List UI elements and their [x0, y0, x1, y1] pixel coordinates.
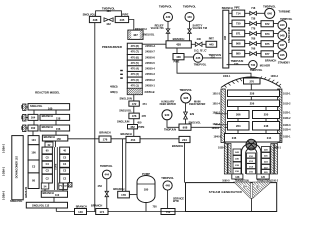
svg-text:264: 264 [236, 124, 241, 128]
volume 946 [278, 51, 287, 60]
valve 442 spray [104, 18, 113, 22]
volume 448 SI [163, 181, 172, 190]
svg-text:1040-8: 1040-8 [214, 136, 222, 139]
svg-text:868: 868 [236, 42, 241, 46]
SG shell bar right lower [271, 144, 274, 175]
svg-text:120: 120 [261, 176, 266, 179]
svg-text:476: 476 [132, 114, 137, 118]
volume 256 separator [228, 100, 280, 107]
svg-text:930: 930 [165, 113, 170, 117]
volume 266 downcomer upper [228, 111, 250, 119]
volume 928 main feedwater [181, 93, 191, 103]
volume 112 lower head [26, 202, 67, 208]
valve 788 [250, 42, 257, 46]
svg-text:PIPE: PIPE [122, 12, 128, 16]
svg-text:270: 270 [249, 79, 254, 83]
volume 947 [278, 41, 287, 50]
svg-text:448: 448 [165, 184, 170, 188]
wire 435 to steam header [203, 57, 222, 59]
SG dome arc [221, 77, 281, 88]
SG shell bar left lower [224, 144, 227, 175]
wires core to 110 [44, 189, 46, 191]
svg-text:TMDPVOL: TMDPVOL [183, 4, 196, 8]
svg-text:1030-2: 1030-2 [218, 147, 226, 150]
volume 164 [28, 114, 38, 120]
volume 162 [28, 125, 38, 131]
svg-text:454: 454 [131, 138, 136, 142]
U-tube mid node boxes [247, 153, 256, 174]
svg-text:SNGLVOL: SNGLVOL [83, 12, 96, 16]
svg-text:480(1): 480(1) [110, 90, 118, 94]
svg-text:180: 180 [144, 188, 149, 192]
core bypass channel lines [54, 147, 56, 190]
svg-text:SNGLVOL: SNGLVOL [119, 108, 132, 112]
svg-text:1010-3: 1010-3 [213, 93, 221, 96]
svg-text:24550-B: 24550-B [145, 90, 155, 94]
svg-text:929: 929 [190, 112, 195, 116]
volume 258 separator upper [228, 90, 280, 97]
wire 110 to 112 [53, 197, 55, 202]
volume 430 relief sink [164, 13, 173, 22]
wires row3 to row4 [32, 131, 34, 136]
svg-text:160: 160 [48, 106, 53, 110]
svg-text:TMDPVOL: TMDPVOL [194, 63, 207, 67]
svg-text:470 (5): 470 (5) [131, 61, 139, 65]
wire 112 to cold leg line [55, 208, 57, 212]
volume 440 safety sink [185, 13, 194, 22]
loop boundary rectangle [186, 183, 277, 212]
core top junction box [45, 142, 53, 147]
wire cold leg bottom line [56, 211, 185, 213]
svg-text:WTR: WTR [173, 200, 179, 203]
svg-text:872: 872 [265, 22, 270, 26]
row 3: volume 871 [232, 30, 245, 37]
svg-text:ANNULUS: ANNULUS [25, 186, 28, 198]
svg-text:BRANCH: BRANCH [265, 59, 276, 63]
svg-text:BRANCH: BRANCH [44, 135, 55, 139]
svg-text:24550-2: 24550-2 [145, 78, 155, 82]
riser node boxes right of U [262, 147, 271, 175]
svg-text:470 (2): 470 (2) [131, 78, 139, 82]
svg-text:24550-3: 24550-3 [145, 72, 155, 76]
svg-text:250: 250 [264, 113, 269, 117]
svg-text:BRANCH: BRANCH [91, 204, 102, 208]
volume 246 boiler [225, 134, 281, 143]
wire 435 to branch 437 [129, 20, 134, 31]
wires row2 to row3 [33, 120, 35, 125]
svg-text:1100-2: 1100-2 [271, 180, 279, 183]
valve 778 [250, 32, 257, 36]
svg-text:TMDPVOL: TMDPVOL [159, 4, 172, 8]
svg-text:TMDPVOL: TMDPVOL [179, 88, 192, 92]
svg-text:SNGLJUN: SNGLJUN [117, 119, 130, 123]
leader wires left labels [215, 113, 228, 115]
svg-text:124: 124 [243, 185, 248, 188]
branch 110 lower plenum [41, 191, 67, 197]
svg-text:CORE: CORE [56, 163, 58, 170]
volume 234 SG inlet [179, 136, 190, 142]
wire 444 to valve [106, 179, 108, 191]
svg-text:BRANCH: BRANCH [99, 131, 110, 135]
svg-text:908: 908 [183, 126, 188, 130]
row 5: volume 880 [232, 50, 245, 57]
volume 178 pump suction [118, 191, 130, 198]
valve charging [105, 191, 109, 196]
svg-text:1090-5: 1090-5 [222, 180, 230, 183]
svg-text:875: 875 [265, 42, 270, 46]
SG shell bar right upper [278, 89, 282, 143]
wire valve to 174 [106, 197, 108, 209]
svg-text:730: 730 [236, 22, 241, 26]
volume 752 cold leg [161, 209, 175, 215]
svg-text:444: 444 [105, 173, 110, 177]
volume 445 PRT [206, 41, 217, 47]
svg-text:106: 106 [31, 151, 36, 155]
svg-text:TMDPVOL: TMDPVOL [250, 68, 263, 72]
svg-text:BRANCH: BRANCH [43, 191, 54, 195]
svg-text:174: 174 [99, 210, 104, 214]
tube sheet box right [257, 174, 269, 179]
wires row1 to row2 [33, 110, 35, 114]
U-tube inner [246, 148, 257, 174]
svg-text:452: 452 [130, 125, 135, 129]
core channel B volumes [60, 147, 70, 183]
svg-text:778: 778 [251, 28, 256, 31]
wire stack chain [133, 95, 135, 137]
valve 718 [250, 11, 257, 15]
wire 908 to SG downcomer [191, 126, 228, 128]
svg-text:470 (1): 470 (1) [131, 84, 139, 88]
valve 446 [195, 42, 202, 46]
junction hatched row2 [23, 114, 26, 121]
svg-text:234: 234 [182, 138, 187, 142]
svg-text:437: 437 [133, 33, 138, 37]
wire funnel top [233, 181, 270, 183]
svg-text:478: 478 [142, 114, 147, 118]
wire 430 to valve [167, 22, 169, 29]
svg-text:176: 176 [103, 138, 108, 142]
SG dome hatch ticks [224, 77, 281, 88]
svg-text:SNGLVOL: SNGLVOL [30, 104, 43, 108]
volume 176 hot leg [99, 136, 111, 142]
valve 748 safety [188, 29, 192, 33]
svg-text:1040-6: 1040-6 [212, 127, 220, 130]
funnel labels [242, 185, 248, 188]
wires to third row [237, 107, 239, 111]
wire 436 to 435 circle [184, 56, 193, 58]
volume 873 [261, 31, 273, 37]
svg-text:110: 110 [55, 193, 60, 197]
svg-text:798: 798 [251, 48, 256, 51]
wire from volume 438 down to cold leg [94, 23, 96, 212]
svg-text:DOWNCOMER 102: DOWNCOMER 102 [16, 156, 19, 179]
svg-text:VALVES 748: VALVES 748 [193, 27, 208, 30]
svg-text:140: 140 [78, 210, 83, 214]
wire header to 736 [227, 64, 249, 66]
svg-text:24550-6: 24550-6 [145, 55, 155, 59]
svg-text:940: 940 [280, 23, 285, 27]
svg-text:24550-7: 24550-7 [145, 50, 155, 54]
wires to fourth row [237, 119, 239, 122]
wire funnel outlet [251, 198, 253, 212]
wire 270 to separator row [250, 84, 252, 90]
volume 444 charging [102, 170, 111, 179]
svg-text:128: 128 [235, 176, 240, 179]
svg-text:258: 258 [250, 92, 255, 96]
wire 448 to 750 [167, 190, 169, 208]
svg-text:TMDPVOL: TMDPVOL [100, 164, 113, 168]
wire [250, 97, 252, 101]
svg-text:948: 948 [280, 33, 285, 37]
svg-text:STEAM GENERATOR: STEAM GENERATOR [209, 190, 243, 194]
svg-text:FEED WATER: FEED WATER [160, 103, 176, 106]
wire 234 down to SG inlet plenum [184, 143, 186, 183]
svg-text:162: 162 [31, 126, 36, 130]
svg-text:SNGLJUN: SNGLJUN [120, 96, 133, 100]
svg-text:REACTOR MODEL: REACTOR MODEL [35, 91, 60, 95]
separator swirl symbol [246, 139, 257, 150]
svg-text:873: 873 [265, 32, 270, 36]
svg-text:733: 733 [234, 62, 239, 66]
wires header to row volumes [229, 13, 232, 53]
svg-text:1080-1: 1080-1 [273, 147, 281, 150]
volume 948 [278, 31, 287, 40]
valve 929 feed [184, 112, 188, 119]
svg-text:1010-2: 1010-2 [283, 103, 291, 106]
U-tube outer [242, 143, 261, 174]
svg-text:BRANCH: BRANCH [121, 132, 132, 136]
svg-text:1010-1: 1010-1 [283, 93, 291, 96]
volume 930 aux feedwater [162, 110, 172, 120]
bypass column volumes [28, 136, 39, 189]
svg-text:420: 420 [106, 9, 111, 13]
row 2: volume 730 [232, 20, 245, 27]
svg-text:BRANCH: BRANCH [172, 144, 183, 148]
svg-text:FEED WATER: FEED WATER [189, 103, 205, 106]
wires to boiler row [237, 130, 239, 134]
core channel A volumes [42, 147, 52, 183]
wire 178 to pump [129, 194, 137, 196]
wire valve to 908 [185, 119, 187, 124]
svg-text:445: 445 [209, 43, 214, 47]
svg-text:718: 718 [251, 7, 256, 10]
SG outlet funnel left [235, 182, 251, 198]
svg-text:446: 446 [197, 37, 202, 41]
SG shell bar left upper [221, 89, 225, 143]
svg-text:470 (8): 470 (8) [131, 44, 139, 48]
pipe 436 [173, 54, 184, 60]
svg-text:1030-1: 1030-1 [283, 136, 291, 139]
volume 140 lower plenum inlet [75, 209, 87, 215]
wire to valve 446 [191, 43, 195, 45]
svg-text:877: 877 [265, 52, 270, 56]
volume 940 [278, 21, 287, 30]
pump 180 RCP [137, 176, 155, 203]
wire 930 to 908 [167, 120, 179, 128]
branch 438 relief header [166, 41, 191, 48]
core lower junction A [41, 183, 49, 189]
svg-text:480(3): 480(3) [110, 85, 118, 89]
svg-text:435: 435 [196, 56, 201, 60]
wire valve to PRT [202, 43, 206, 45]
svg-text:BRANCH: BRANCH [76, 205, 87, 209]
svg-text:640: 640 [267, 12, 272, 16]
pressurizer stack volumes 470 [127, 43, 142, 94]
wire hot leg [68, 138, 179, 140]
wire 440 to valve [189, 22, 191, 29]
wire 928 to valve [185, 103, 187, 112]
svg-text:STANDBY: STANDBY [278, 60, 291, 64]
volume 875 [261, 41, 273, 47]
svg-text:880: 880 [236, 52, 241, 56]
svg-text:1-DBA-1: 1-DBA-1 [3, 166, 6, 176]
svg-text:104: 104 [31, 138, 36, 142]
svg-text:750: 750 [153, 205, 158, 208]
steam header manifold 408 [223, 10, 229, 68]
svg-text:738: 738 [251, 18, 256, 21]
volume 640 turbine [265, 8, 275, 18]
svg-text:TMDPVOL: TMDPVOL [161, 176, 174, 180]
volume 476 surge line [129, 113, 139, 119]
svg-text:470 (6): 470 (6) [131, 55, 139, 59]
volume 250 riser upper [253, 111, 280, 119]
svg-text:1000-1: 1000-1 [223, 75, 231, 78]
svg-text:266: 266 [236, 113, 241, 117]
valve 738 [250, 22, 257, 26]
svg-text:178: 178 [121, 193, 126, 197]
svg-text:PIPE: PIPE [138, 125, 144, 129]
junction hatched row3 [23, 125, 26, 132]
svg-text:164: 164 [31, 116, 36, 120]
svg-text:C3: C3 [32, 165, 36, 169]
valve 746 relief [166, 29, 170, 33]
svg-text:1020-1: 1020-1 [283, 112, 291, 115]
svg-text:256: 256 [250, 102, 255, 106]
wire pump to cold leg [145, 202, 147, 212]
svg-text:1-DBA-3: 1-DBA-3 [3, 190, 6, 200]
svg-text:PRT: PRT [209, 37, 215, 41]
svg-text:BRANCH: BRANCH [42, 114, 53, 118]
svg-text:947: 947 [280, 43, 285, 47]
svg-text:450: 450 [137, 120, 142, 124]
svg-text:156: 156 [56, 127, 61, 131]
core lower junctions B [59, 183, 63, 189]
svg-text:474: 474 [142, 102, 147, 106]
svg-text:714: 714 [236, 11, 241, 15]
volume 270 steam dome [244, 78, 261, 84]
tube sheet box left [232, 174, 243, 179]
svg-text:248: 248 [264, 124, 269, 128]
volume 248 riser [253, 122, 280, 131]
wire branch150 to core [54, 141, 56, 147]
svg-text:S.G. 'B','C': S.G. 'B','C' [194, 48, 207, 52]
svg-text:871: 871 [236, 32, 241, 36]
downcomer tall volume [12, 136, 23, 200]
junction tick marks left column [21, 105, 22, 130]
svg-text:1020-4: 1020-4 [283, 129, 291, 132]
junction hatched core outlet [68, 183, 72, 188]
SG outlet funnel right [253, 182, 271, 198]
svg-text:BRANCH: BRANCH [113, 187, 124, 191]
svg-text:158: 158 [56, 116, 61, 120]
svg-text:788: 788 [251, 38, 256, 41]
volume 736 MS header [249, 60, 257, 68]
junction 472 [129, 101, 139, 106]
svg-text:1010-4: 1010-4 [213, 103, 221, 106]
wire branch 438 to pipe 436 [176, 48, 178, 54]
svg-text:24550-1: 24550-1 [145, 84, 155, 88]
volume 435 other SG sink [193, 53, 202, 62]
svg-text:1-DBA-2: 1-DBA-2 [3, 143, 6, 153]
svg-text:1000-2: 1000-2 [271, 75, 279, 78]
svg-text:470 (7): 470 (7) [131, 50, 139, 54]
wire loop seal risers [122, 139, 124, 192]
valve 798 [250, 52, 257, 56]
junction hatched row1 [23, 104, 26, 110]
volume 435 spray pipe [115, 16, 128, 22]
svg-text:150: 150 [57, 137, 62, 141]
wire spray loop top [96, 11, 122, 17]
svg-text:SNGLVOL: SNGLVOL [143, 34, 155, 37]
volume 908 feed line [179, 124, 191, 130]
volume 160 upper head [28, 104, 70, 110]
svg-text:440: 440 [187, 15, 192, 19]
svg-text:VALVE 746: VALVE 746 [151, 27, 164, 30]
volume 264 downcomer [228, 122, 250, 131]
svg-text:430: 430 [166, 15, 171, 19]
branch 150 outlet plenum [42, 135, 67, 141]
stack node labels 24550 [145, 44, 156, 94]
svg-text:438: 438 [93, 18, 98, 22]
svg-text:1020-3: 1020-3 [283, 124, 291, 127]
wire stack top to branch 438 [142, 43, 166, 45]
svg-text:453: 453 [98, 184, 103, 188]
volume 454 hot leg branch [126, 136, 140, 142]
svg-text:1020-2: 1020-2 [283, 117, 291, 120]
svg-text:736: 736 [251, 63, 256, 67]
volume 438 spray [89, 16, 100, 22]
wires valves to branch 438 [167, 33, 169, 41]
branch 437 pressurizer top [128, 30, 143, 39]
row 1: volume 714 [232, 10, 245, 17]
row 4: volume 868 [232, 40, 245, 47]
branch 158 upper plenum [40, 114, 70, 120]
SG node labels right [283, 93, 291, 139]
svg-text:470 (3): 470 (3) [131, 72, 139, 76]
svg-text:24550-4: 24550-4 [145, 67, 155, 71]
branch 156 upper plenum [40, 125, 70, 131]
svg-text:436: 436 [176, 55, 181, 59]
wire steam line 436 to SG dome [177, 60, 251, 78]
pipe 452 [128, 125, 138, 129]
svg-text:408: 408 [224, 35, 227, 40]
volume 174 cold leg [96, 209, 108, 215]
svg-text:SNGLVOL: SNGLVOL [10, 199, 23, 203]
volume 877 [261, 51, 273, 57]
svg-text:438: 438 [176, 43, 181, 47]
svg-text:SNGLVOL 112: SNGLVOL 112 [32, 203, 50, 207]
svg-text:TMDPVOL: TMDPVOL [263, 4, 276, 8]
svg-text:MS HDR: MS HDR [260, 63, 270, 67]
svg-text:PRESSURIZER: PRESSURIZER [102, 45, 122, 49]
riser node boxes left of U [233, 149, 241, 174]
svg-text:TURBINE: TURBINE [278, 10, 290, 14]
svg-text:TMDPJUN: TMDPJUN [164, 129, 176, 132]
svg-text:946: 946 [280, 53, 285, 57]
svg-text:BRANCH: BRANCH [42, 125, 53, 129]
svg-text:472: 472 [132, 102, 137, 106]
svg-text:442: 442 [106, 22, 111, 26]
